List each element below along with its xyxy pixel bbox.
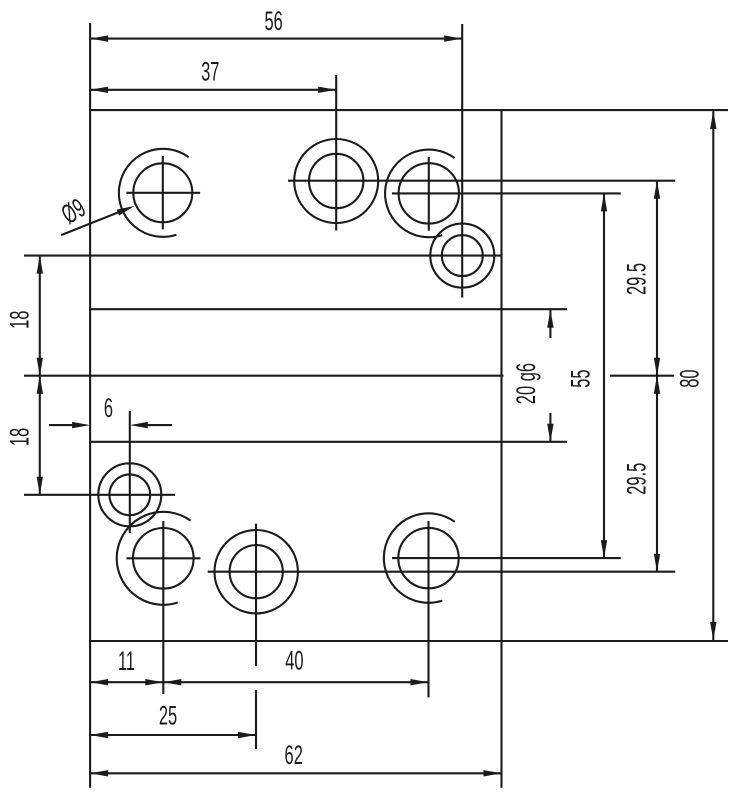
centerline tick right segment <box>610 375 674 377</box>
arrowhead 11 right <box>145 679 163 685</box>
hole 1 crosshair horizontal <box>126 192 200 194</box>
arrowhead 18 upper top <box>37 256 43 274</box>
dim 29.5 lower line <box>656 376 658 572</box>
hole 1 crosshair vertical <box>162 156 164 229</box>
interior line y=441.8 <box>90 441 567 443</box>
arrowhead 29.5 upper top <box>654 181 660 199</box>
dim 11 40 line <box>90 681 428 683</box>
hole 2 inner circle <box>309 154 363 208</box>
arrowhead 18 lower top <box>37 376 43 394</box>
hole 3 thread arc <box>385 150 455 238</box>
svg-text:80: 80 <box>674 369 704 387</box>
hole 2 outer circle <box>294 139 378 223</box>
hole 4 outer circle <box>430 224 494 288</box>
svg-text:6: 6 <box>104 393 113 423</box>
svg-text:18: 18 <box>4 428 34 446</box>
hole 3 bore circle <box>399 163 459 223</box>
hole 1 bore circle <box>133 163 192 222</box>
arrowhead 80 top <box>710 111 716 129</box>
hole 8 crosshair horizontal / extension to 55 dim <box>392 557 621 559</box>
hole 6 crosshair vertical / 11 dim extension <box>162 521 164 694</box>
hole 2 crosshair horizontal / extension to 29.5 dim <box>288 180 675 182</box>
body left edge / extension line <box>89 23 91 788</box>
svg-text:62: 62 <box>285 740 303 770</box>
hole 8 crosshair vertical / 40 dim extension <box>427 521 429 697</box>
arrowhead 20g6 top <box>547 310 553 328</box>
hole 4 inner circle <box>442 235 483 276</box>
arrowhead 29.5 lower top <box>654 376 660 394</box>
arrowhead 55 top <box>601 193 607 211</box>
arrowhead 11 left <box>90 679 108 685</box>
hole 8 bore circle <box>398 528 458 588</box>
hole 7 inner circle <box>230 545 283 598</box>
hole 4 crosshair vertical / 56 dim extension <box>461 24 463 298</box>
dim 25 line <box>90 734 256 736</box>
interior line y=309.2 <box>90 308 567 310</box>
arrowhead 40 right <box>411 679 429 685</box>
hole 5 crosshair vertical / 6 dim extension <box>129 411 131 533</box>
arrowhead 56 left <box>90 35 108 41</box>
hole 6 thread arc <box>117 512 191 605</box>
arrowhead 18 lower bottom <box>37 477 43 495</box>
hole 2 crosshair vertical / 37 dim extension <box>335 75 337 231</box>
svg-text:55: 55 <box>565 369 595 387</box>
dim 56 line <box>90 38 462 40</box>
body top edge <box>89 109 728 111</box>
hole 7 25-dim extension segment <box>255 690 257 749</box>
svg-text:29.5: 29.5 <box>621 263 651 295</box>
hole 3 crosshair vertical <box>428 157 430 231</box>
svg-text:Ø9: Ø9 <box>56 193 90 230</box>
body bottom edge <box>89 640 728 642</box>
hole 7 crosshair horizontal / extension to 29.5 dim <box>208 571 676 573</box>
dim 62 line <box>90 772 501 774</box>
centerline y=375.7 <box>24 375 504 377</box>
arrowhead 25 left <box>90 732 108 738</box>
arrowhead 80 bottom <box>710 622 716 640</box>
arrowhead leader Ø9 <box>117 206 135 216</box>
arrowhead 29.5 lower bottom <box>654 554 660 572</box>
svg-text:37: 37 <box>201 56 219 86</box>
svg-text:40: 40 <box>285 645 303 675</box>
arrowhead 37 right <box>318 87 336 93</box>
dim 18 upper line <box>39 256 41 376</box>
dim 55 line <box>603 193 605 558</box>
hole 8 thread arc <box>384 513 455 602</box>
hole 1 thread arc <box>119 149 189 237</box>
svg-text:25: 25 <box>159 700 177 730</box>
hole 3 crosshair horizontal / extension to 55 dim <box>392 192 621 194</box>
dim 20g6 upper segment <box>549 309 551 338</box>
dim 37 line <box>90 89 336 91</box>
svg-text:11: 11 <box>118 646 135 676</box>
arrowhead 37 left <box>90 87 108 93</box>
line y=494.8 hole5 axis <box>24 494 175 496</box>
arrowhead 6 right <box>130 422 148 428</box>
arrowhead 62 right <box>484 770 502 776</box>
svg-text:29.5: 29.5 <box>621 463 651 495</box>
arrowhead 55 bottom <box>601 540 607 558</box>
hole 5 outer circle <box>98 463 161 526</box>
svg-text:20 g6: 20 g6 <box>511 363 541 404</box>
arrowhead 29.5 upper bottom <box>654 358 660 376</box>
arrowhead 40 left <box>163 679 181 685</box>
arrowhead 62 left <box>90 770 108 776</box>
dim 20g6 lower segment <box>549 413 551 442</box>
arrowhead 20g6 bottom <box>547 424 553 442</box>
hole 7 outer circle <box>215 530 298 613</box>
arrowhead 6 left <box>72 422 90 428</box>
svg-text:18: 18 <box>4 311 34 329</box>
dim 6 left tail <box>49 424 73 426</box>
dim 6 right tail <box>147 424 172 426</box>
dim 80 line <box>712 111 714 640</box>
dim 18 lower line <box>39 376 41 495</box>
arrowhead 25 right <box>238 732 256 738</box>
dim 29.5 upper line <box>656 181 658 376</box>
arrowhead 18 upper bottom <box>37 358 43 376</box>
body right edge / extension line <box>500 111 502 788</box>
svg-text:56: 56 <box>264 6 282 36</box>
hole 5 inner circle <box>109 474 150 515</box>
hole 6 crosshair horizontal <box>127 557 201 559</box>
hole 6 bore circle <box>133 528 194 589</box>
interior line y=255.6 <box>24 255 502 257</box>
arrowhead 56 right <box>444 35 462 41</box>
leader line for Ø9 <box>61 208 130 235</box>
hole 7 crosshair vertical <box>255 524 257 666</box>
